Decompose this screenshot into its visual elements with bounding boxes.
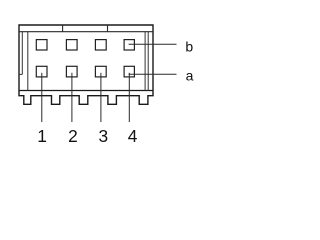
svg-text:4: 4 [128, 126, 138, 146]
svg-text:1: 1 [37, 126, 47, 146]
svg-text:a: a [186, 67, 194, 83]
svg-text:b: b [185, 38, 193, 54]
svg-text:2: 2 [68, 126, 78, 146]
svg-text:3: 3 [98, 126, 108, 146]
